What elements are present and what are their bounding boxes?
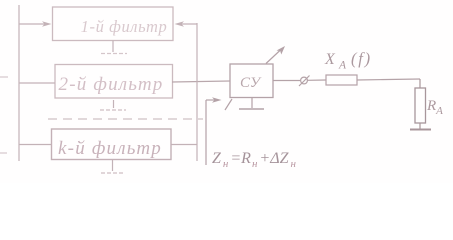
wire: feedback arrow into filter 1 (from right bus): [179, 23, 197, 25]
junction bar under filter k: [101, 172, 125, 174]
svg-text:A: A: [338, 60, 347, 72]
svg-text:Zн=Rн+ΔZн: Zн=Rн+ΔZн: [212, 150, 297, 170]
node: right vertical bus: [196, 23, 198, 161]
wire: reactance to corner: [357, 79, 420, 80]
svg-text:k-й фильтр: k-й фильтр: [58, 138, 162, 159]
wire: input arrow into filter 1: [19, 23, 47, 25]
wire: stub filter2 down: [113, 100, 115, 108]
wire: filter k right stub: [171, 144, 197, 146]
ground under R_A: [410, 129, 431, 131]
svg-text:(f): (f): [351, 49, 372, 68]
ground under СУ: [239, 108, 264, 110]
left margin tick 2: [0, 152, 7, 154]
wire: stub filter1 to filter2: [112, 41, 114, 53]
wire: filter 2 left stub: [19, 82, 55, 84]
svg-text:1-й фильтр: 1-й фильтр: [81, 17, 168, 36]
ellipsis dashed line: [48, 118, 203, 120]
wire: R_A to ground: [419, 123, 421, 129]
wire: corner down to R_A: [419, 79, 421, 88]
wire: СУ bottom stub: [251, 98, 253, 109]
left margin tick: [0, 76, 8, 78]
filter block 2: [55, 65, 173, 99]
svg-text:2-й фильтр: 2-й фильтр: [59, 74, 164, 95]
svg-text:X: X: [324, 51, 336, 68]
block СУ (matching unit): [230, 64, 273, 98]
resistor R_A: [415, 88, 426, 123]
wire: СУ output: [273, 80, 300, 82]
filter block 1: [53, 7, 174, 41]
adjustment arrow on СУ: [266, 50, 281, 64]
svg-text:СУ: СУ: [240, 75, 262, 91]
wire: stub filter k down: [112, 160, 114, 172]
reactance X_A(f): [326, 75, 357, 85]
connector circle: [301, 77, 308, 84]
filter block k: [52, 129, 172, 160]
node: left vertical bus: [18, 5, 20, 161]
junction bar under filter 2: [100, 109, 126, 111]
svg-text:RA: RA: [426, 98, 443, 117]
wire: circle to reactance: [308, 79, 327, 81]
junction bar under filter 1: [101, 53, 127, 55]
wire: filter k left stub: [19, 144, 52, 146]
wire: filter 2 right stub to СУ: [172, 81, 230, 82]
node: control line vertical: [205, 100, 207, 165]
tick on СУ lower-left: [225, 99, 232, 110]
wire: control arrow into СУ: [206, 99, 216, 101]
